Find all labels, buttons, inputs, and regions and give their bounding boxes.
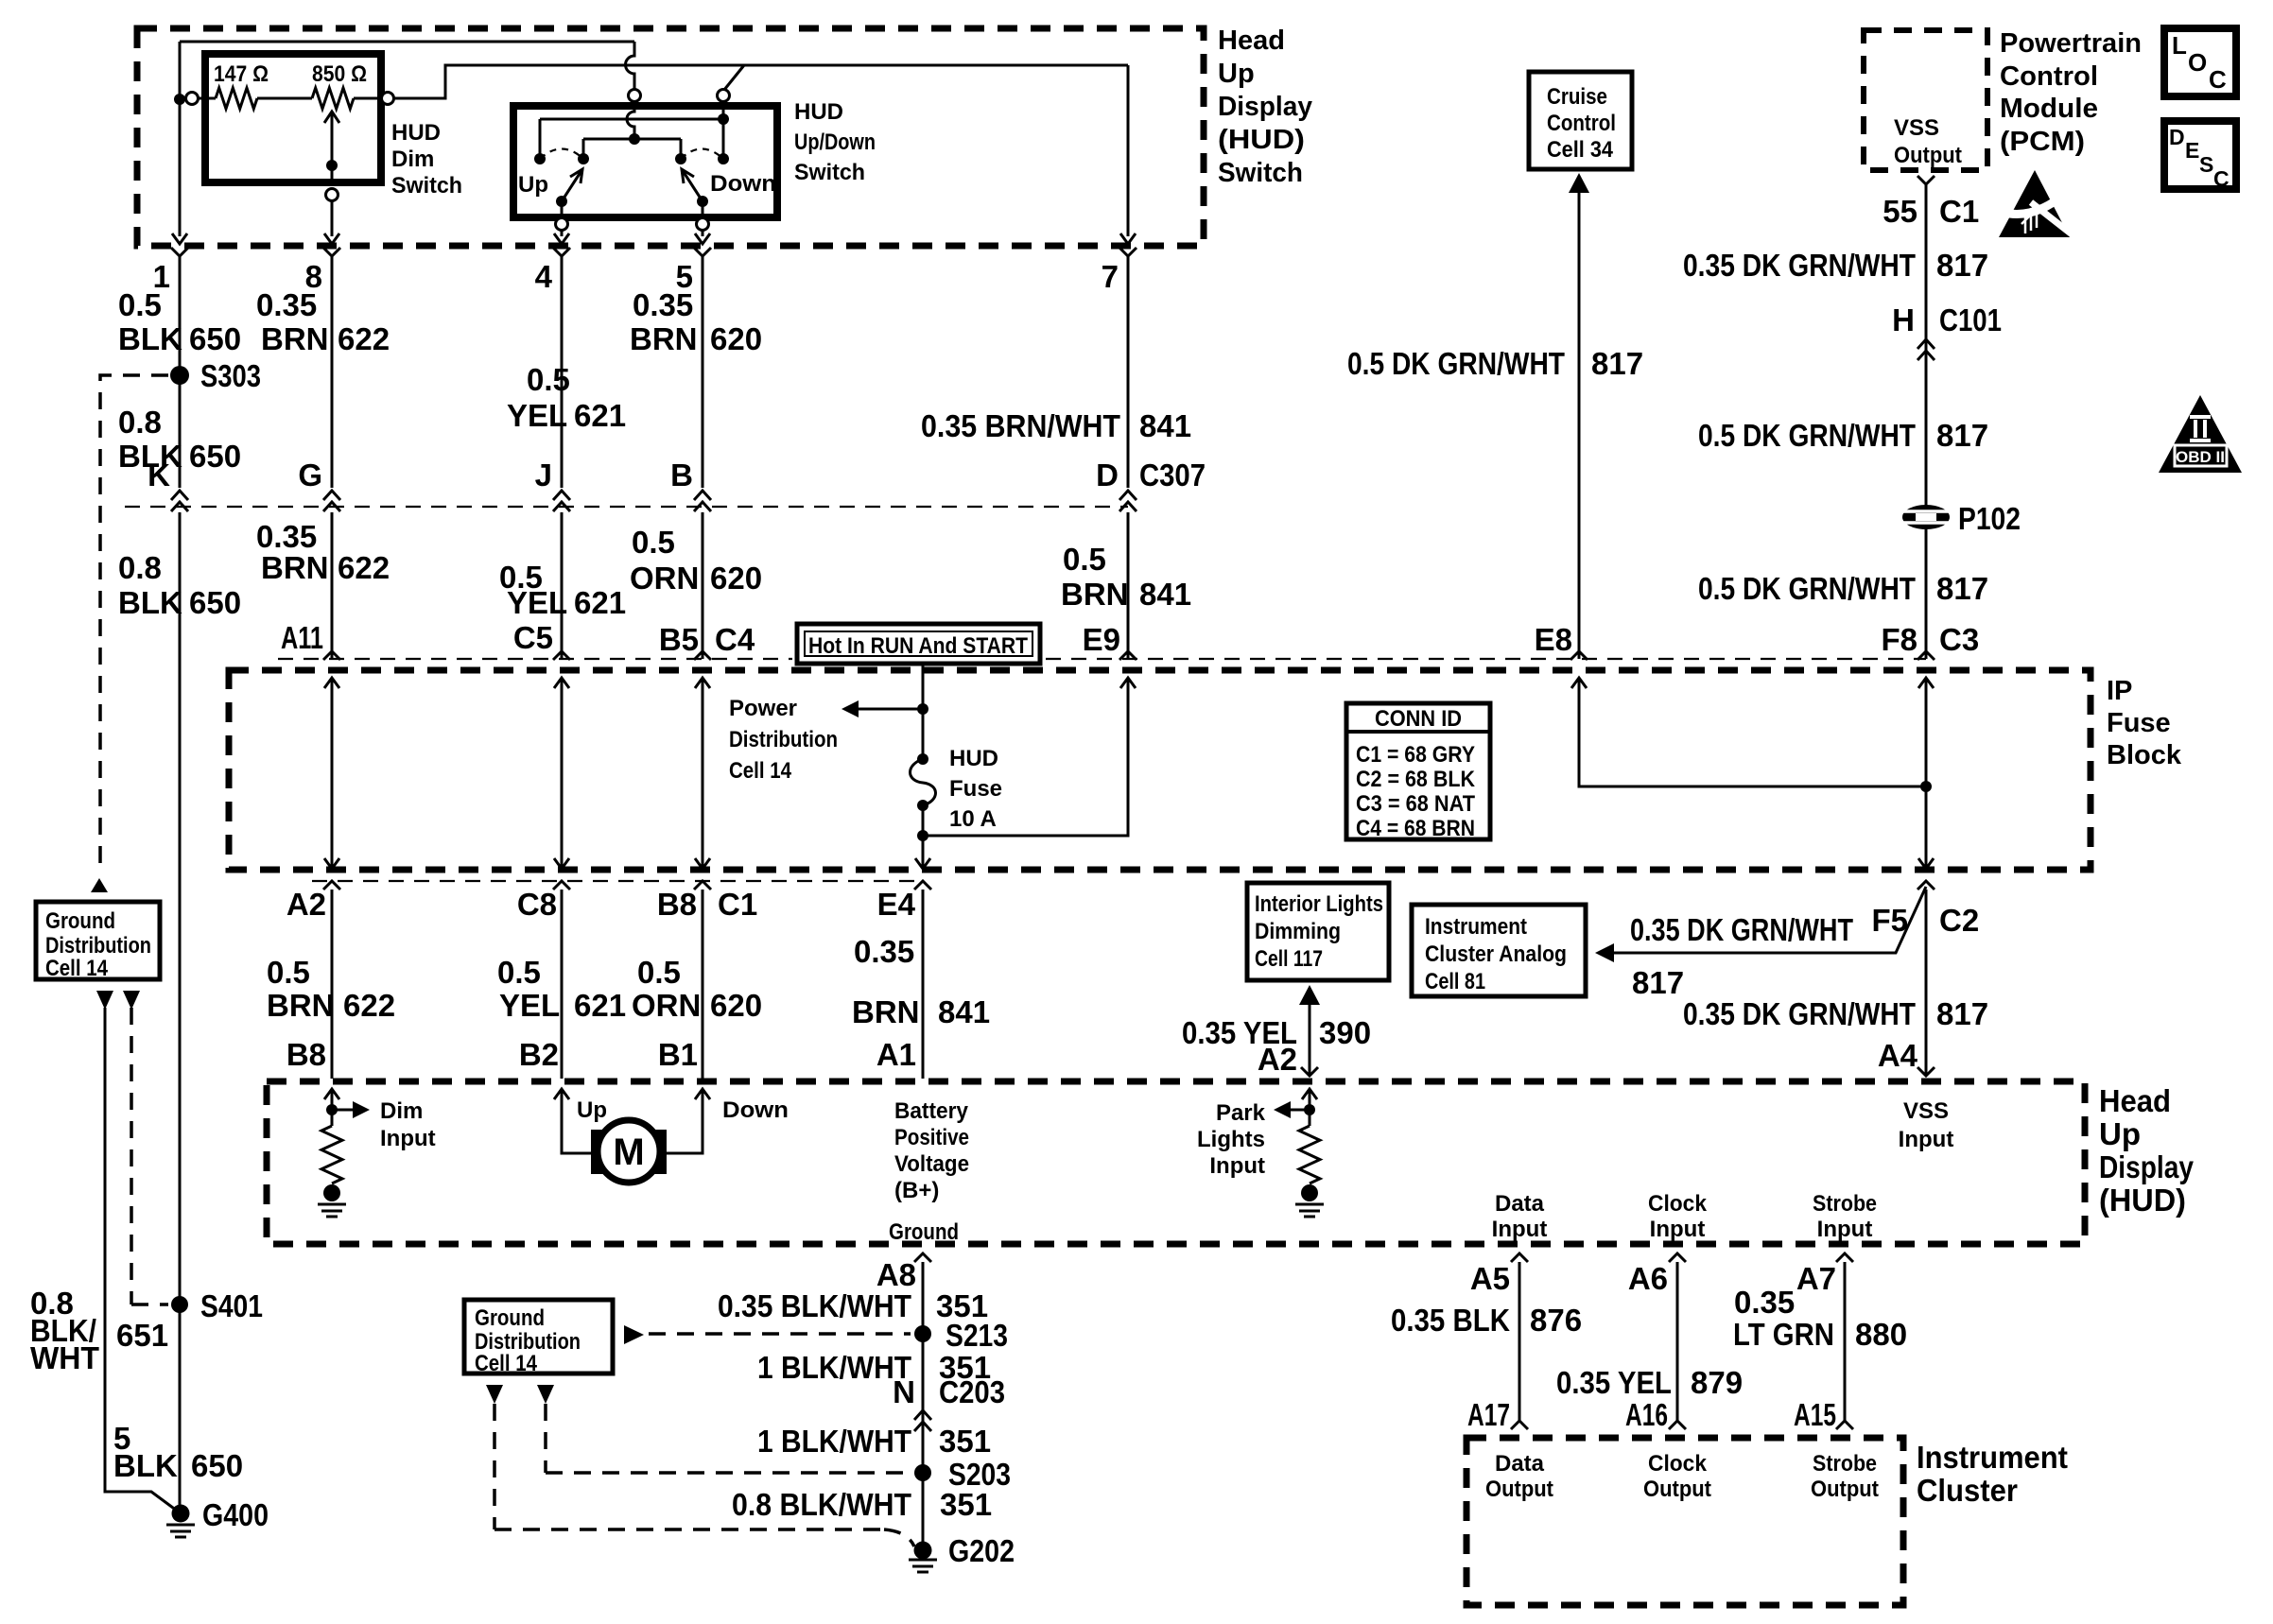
- wire C1 into switch w/ hop: [627, 102, 634, 139]
- svg-text:BRN: BRN: [630, 321, 698, 356]
- svg-text:OBD II: OBD II: [2176, 448, 2225, 466]
- svg-text:Fuse: Fuse: [949, 776, 1002, 802]
- svg-text:Up: Up: [518, 172, 548, 198]
- pin A6 fork: [1669, 1253, 1686, 1262]
- svg-text:Display: Display: [1218, 92, 1312, 122]
- svg-text:C8: C8: [517, 887, 557, 922]
- svg-text:Battery: Battery: [894, 1098, 969, 1124]
- svg-text:A2: A2: [286, 887, 326, 922]
- label 0.5 BRN 622 (3): [267, 955, 395, 1023]
- svg-text:B8: B8: [657, 887, 697, 922]
- svg-text:Positive: Positive: [894, 1125, 969, 1150]
- svg-text:Voltage: Voltage: [894, 1151, 969, 1177]
- svg-text:A11: A11: [281, 620, 323, 655]
- label VSS Output: [1894, 115, 1962, 168]
- svg-text:C2: C2: [1939, 903, 1979, 938]
- svg-text:0.35 BRN/WHT: 0.35 BRN/WHT: [921, 408, 1120, 443]
- svg-text:0.5 DK GRN/WHT: 0.5 DK GRN/WHT: [1698, 571, 1916, 606]
- wire between resistors: [257, 97, 312, 100]
- wire 817 diagonal to cell 81: [1612, 887, 1926, 953]
- wire 620 pin5-C307: [702, 256, 704, 488]
- label Clock Input: [1648, 1191, 1708, 1242]
- svg-text:55: 55: [1883, 194, 1917, 229]
- ground park: [1295, 1204, 1324, 1217]
- svg-text:C4: C4: [715, 622, 755, 657]
- svg-text:620: 620: [710, 561, 762, 596]
- svg-text:0.5 DK GRN/WHT: 0.5 DK GRN/WHT: [1347, 346, 1565, 381]
- wire 650 pin1-C307: [179, 256, 182, 488]
- node rail2 center: [629, 133, 640, 145]
- label 0.35 BRN 622: [256, 287, 390, 356]
- wire 390: [1309, 1003, 1311, 1076]
- wire to right terminal: [354, 97, 381, 100]
- svg-text:0.35 DK GRN/WHT: 0.35 DK GRN/WHT: [1683, 248, 1916, 283]
- node junction dot dim input: [174, 94, 185, 105]
- label 0.35 DK GRN/WHT 817 (A4): [1683, 996, 1988, 1031]
- label Head Up Display (HUD): [2099, 1083, 2195, 1218]
- svg-text:Input: Input: [1817, 1217, 1873, 1242]
- svg-text:0.5: 0.5: [632, 525, 675, 560]
- C307 pin D: [1119, 491, 1136, 500]
- pin E9: [1119, 651, 1136, 660]
- dashed ref to G202: [495, 1404, 884, 1529]
- svg-text:O: O: [2188, 48, 2207, 77]
- pin C5: [553, 651, 570, 660]
- connector pin 7 fork: [1119, 248, 1136, 256]
- hud pin arrow up: [554, 1089, 569, 1099]
- svg-text:N: N: [893, 1374, 915, 1409]
- svg-text:Cell 117: Cell 117: [1255, 946, 1323, 972]
- pin E4: [914, 881, 931, 890]
- wire 817 VSS output: [1925, 184, 1928, 659]
- wire 650 K down left margin: [179, 512, 182, 1513]
- svg-text:F5: F5: [1871, 903, 1908, 938]
- svg-text:Cell 14: Cell 14: [475, 1351, 538, 1376]
- svg-text:1 BLK/WHT: 1 BLK/WHT: [757, 1424, 911, 1459]
- svg-text:C2 = 68 BLK: C2 = 68 BLK: [1356, 767, 1476, 792]
- svg-text:VSS: VSS: [1903, 1098, 1949, 1124]
- label Park Lights Input: [1197, 1100, 1266, 1179]
- ESD sensitivity symbol: [1999, 170, 2079, 240]
- svg-text:Input: Input: [380, 1126, 436, 1151]
- svg-text:Cell 34: Cell 34: [1547, 137, 1614, 163]
- svg-text:BRN: BRN: [261, 550, 329, 585]
- dashed ground ref S303 to margin: [100, 375, 168, 873]
- wire 620 through block: [702, 678, 704, 869]
- svg-text:HUD: HUD: [794, 99, 843, 125]
- label 0.35 BRN 622 (2): [256, 519, 390, 585]
- label 0.8 BLK/WHT 651: [30, 1286, 168, 1375]
- ground G400: [172, 1505, 190, 1523]
- splice S213: [914, 1325, 931, 1342]
- svg-text:Clock: Clock: [1648, 1191, 1708, 1217]
- wire 622 pin8-C307: [331, 256, 334, 488]
- label HUD Fuse 10 A: [949, 746, 1002, 832]
- label Data Output: [1485, 1451, 1553, 1502]
- svg-text:YEL: YEL: [507, 585, 567, 620]
- svg-text:Cell 14: Cell 14: [45, 956, 109, 981]
- svg-text:P102: P102: [1958, 501, 2021, 536]
- label Power Distribution Cell 14: [729, 696, 838, 784]
- svg-text:622: 622: [338, 550, 390, 585]
- terminal circle dim right: [382, 93, 394, 105]
- LOC legend box: [2164, 28, 2236, 96]
- wire pin7 down: [1127, 65, 1130, 236]
- svg-text:A7: A7: [1796, 1261, 1836, 1296]
- svg-text:817: 817: [1936, 248, 1988, 283]
- svg-text:G202: G202: [948, 1533, 1015, 1568]
- pin A7 fork: [1836, 1253, 1853, 1262]
- svg-text:390: 390: [1319, 1015, 1371, 1050]
- CONN ID table box: [1346, 703, 1490, 839]
- label Ground Distribution Cell 14 upper: [45, 908, 151, 981]
- connector pin 4 fork: [553, 248, 570, 256]
- arrow to power distribution: [857, 708, 923, 711]
- svg-text:C101: C101: [1939, 302, 2002, 337]
- connector pin 5 fork: [694, 248, 711, 256]
- label Instrument Cluster: [1917, 1440, 2068, 1508]
- svg-text:Instrument: Instrument: [1425, 914, 1527, 940]
- resistor dim input: [321, 1126, 342, 1183]
- svg-text:M: M: [613, 1132, 644, 1173]
- wire 621 pin4-C307: [561, 256, 564, 488]
- svg-text:BRN: BRN: [1061, 577, 1129, 612]
- connector row dashed (fuse block top): [278, 658, 1926, 660]
- svg-text:621: 621: [574, 988, 626, 1023]
- svg-text:Fuse: Fuse: [2107, 708, 2171, 738]
- svg-text:Output: Output: [1894, 143, 1962, 168]
- diag branch to common C2: [724, 65, 744, 90]
- svg-text:D: D: [2169, 125, 2185, 149]
- wire E8 cruise feed in block: [1579, 678, 1926, 786]
- svg-text:Dim: Dim: [391, 147, 434, 172]
- svg-text:351: 351: [940, 1487, 992, 1522]
- label 0.35 BLK 876: [1391, 1303, 1582, 1338]
- svg-text:Up: Up: [2099, 1116, 2141, 1151]
- node fuse output junction: [917, 830, 928, 841]
- label Interior Lights Dimming Cell 117: [1255, 891, 1383, 972]
- svg-text:Powertrain: Powertrain: [2000, 28, 2142, 59]
- svg-text:LT GRN: LT GRN: [1733, 1317, 1834, 1352]
- svg-text:C307: C307: [1139, 458, 1206, 492]
- pin fork into cluster: [1836, 1421, 1853, 1429]
- svg-text:4: 4: [535, 259, 553, 294]
- svg-text:BLK: BLK: [118, 585, 182, 620]
- svg-text:10 A: 10 A: [949, 806, 997, 832]
- wire wiper to pin8: [331, 165, 334, 183]
- label 0.8 BLK/WHT 351: [732, 1487, 992, 1522]
- svg-text:0.35: 0.35: [256, 287, 317, 322]
- svg-text:0.5: 0.5: [637, 955, 681, 990]
- svg-text:C: C: [2213, 166, 2230, 191]
- svg-text:Cluster Analog: Cluster Analog: [1425, 942, 1567, 967]
- wire 351 A8-G202: [922, 1262, 925, 1550]
- wire 622 A2-B8: [331, 890, 334, 1079]
- svg-text:Up/Down: Up/Down: [794, 130, 876, 155]
- Interior Lights Dimming Cell 117 box: [1247, 883, 1389, 980]
- wire 817 F5-A4: [1925, 890, 1928, 1076]
- label Ground Distribution Cell 14 lower: [475, 1305, 581, 1376]
- svg-text:Power: Power: [729, 696, 797, 721]
- svg-text:Output: Output: [1643, 1477, 1711, 1502]
- label Dim Input: [380, 1098, 436, 1151]
- label Powertrain Control Module (PCM): [2000, 28, 2142, 157]
- arrow into instrument cluster analog: [1595, 943, 1614, 962]
- motor M: [591, 1120, 667, 1183]
- label HUD Up/Down Switch: [794, 99, 876, 185]
- label 0.35 YEL 390: [1182, 1015, 1371, 1050]
- svg-text:C1 = 68 GRY: C1 = 68 GRY: [1356, 742, 1475, 768]
- node wiper junction: [326, 160, 338, 171]
- wire 650 to G400: [105, 1008, 181, 1513]
- wire 841 D-E9: [1127, 512, 1130, 659]
- resistor park lights: [1299, 1126, 1320, 1183]
- C307 pin K: [171, 491, 188, 500]
- label 5 BLK 650: [113, 1421, 243, 1483]
- label 0.35 DK GRN/WHT 817 (top): [1683, 248, 1988, 283]
- svg-text:0.5: 0.5: [527, 362, 570, 397]
- Instrument Cluster Analog Cell 81 box: [1412, 905, 1586, 996]
- wire up-wiper to pin4: [561, 201, 564, 217]
- label Cruise Control Cell 34: [1547, 84, 1616, 163]
- wire fuse output to E9: [923, 678, 1128, 836]
- svg-text:B8: B8: [286, 1037, 326, 1072]
- svg-text:C1: C1: [718, 887, 757, 922]
- svg-text:C4 = 68 BRN: C4 = 68 BRN: [1356, 816, 1475, 841]
- svg-text:S303: S303: [200, 358, 261, 393]
- Hot In RUN And START box: [797, 624, 1040, 664]
- arrow into interior lights dimming: [1299, 985, 1320, 1005]
- svg-text:Module: Module: [2000, 94, 2098, 124]
- svg-text:IP: IP: [2107, 676, 2132, 706]
- Ground Distribution Cell 14 box lower: [464, 1300, 613, 1373]
- wire 621 through block: [561, 678, 564, 869]
- label 0.35 BRN/WHT 841: [921, 408, 1191, 443]
- hud pin arrow park: [1302, 1089, 1317, 1099]
- svg-text:E4: E4: [877, 887, 916, 922]
- arrow park lights: [1291, 1109, 1310, 1112]
- svg-text:B: B: [670, 458, 693, 492]
- svg-text:G400: G400: [202, 1497, 269, 1532]
- label HUD Dim Switch: [391, 120, 462, 199]
- svg-text:YEL: YEL: [507, 398, 567, 433]
- label 0.35 BRN 620: [630, 287, 762, 356]
- svg-text:C203: C203: [939, 1374, 1005, 1409]
- C307 pin G: [323, 491, 340, 500]
- wire A7 down: [1844, 1262, 1847, 1421]
- svg-text:Block: Block: [2107, 740, 2182, 770]
- splice S203: [914, 1464, 931, 1481]
- svg-text:841: 841: [1139, 577, 1191, 612]
- svg-text:Input: Input: [1492, 1217, 1548, 1242]
- splice S401: [171, 1296, 188, 1313]
- label Head Up Display (HUD) Switch: [1218, 26, 1312, 188]
- arrow into cruise control: [1569, 173, 1589, 193]
- svg-text:0.35 BLK/WHT: 0.35 BLK/WHT: [718, 1288, 911, 1323]
- svg-text:Lights: Lights: [1197, 1127, 1265, 1152]
- svg-text:Output: Output: [1485, 1477, 1553, 1502]
- svg-text:Interior Lights: Interior Lights: [1255, 891, 1383, 917]
- node park junction: [1304, 1104, 1315, 1115]
- svg-text:K: K: [147, 458, 170, 492]
- svg-text:351: 351: [939, 1424, 991, 1459]
- svg-text:E8: E8: [1535, 622, 1572, 657]
- svg-text:Ground: Ground: [475, 1305, 545, 1331]
- svg-text:0.35: 0.35: [1734, 1285, 1795, 1320]
- pin B5 C4: [694, 651, 711, 660]
- svg-text:Switch: Switch: [1218, 158, 1303, 188]
- Cruise Control Cell 34 box: [1529, 72, 1632, 169]
- svg-text:E: E: [2185, 138, 2199, 163]
- svg-text:817: 817: [1591, 346, 1643, 381]
- wire fuse output down: [922, 805, 925, 869]
- svg-text:Control: Control: [2000, 61, 2098, 92]
- svg-text:Cluster: Cluster: [1917, 1473, 2018, 1508]
- svg-text:A15: A15: [1794, 1397, 1836, 1432]
- svg-text:Distribution: Distribution: [729, 727, 838, 752]
- svg-text:(PCM): (PCM): [2000, 127, 2085, 157]
- label 0.5 DK GRN/WHT 817 (cruise): [1347, 346, 1643, 381]
- thin dashed row below fuse block: [312, 880, 923, 882]
- svg-text:Strobe: Strobe: [1813, 1191, 1877, 1217]
- svg-text:Input: Input: [1899, 1127, 1954, 1152]
- svg-text:Head: Head: [2099, 1083, 2171, 1118]
- svg-text:622: 622: [338, 321, 390, 356]
- label Data Input: [1492, 1191, 1548, 1242]
- svg-text:ORN: ORN: [630, 561, 699, 596]
- svg-text:Switch: Switch: [391, 173, 462, 199]
- node 817 junction: [1920, 781, 1932, 792]
- wire pin1 down: [179, 99, 182, 236]
- svg-text:A16: A16: [1625, 1397, 1668, 1432]
- svg-text:(HUD): (HUD): [2099, 1183, 2186, 1218]
- svg-text:B2: B2: [519, 1037, 559, 1072]
- svg-text:0.8: 0.8: [118, 405, 162, 440]
- svg-text:0.8: 0.8: [118, 550, 162, 585]
- Powertrain Control Module dashed box: [1864, 30, 1987, 170]
- svg-text:0.35 DK GRN/WHT: 0.35 DK GRN/WHT: [1683, 996, 1916, 1031]
- pin F5 C2 fork: [1917, 881, 1935, 890]
- pin B8 C1: [694, 881, 711, 890]
- svg-text:0.8 BLK/WHT: 0.8 BLK/WHT: [732, 1487, 911, 1522]
- svg-text:Up: Up: [1218, 59, 1255, 89]
- label 0.8 BLK 650 (above K): [118, 405, 241, 474]
- label 0.5 BLK 650: [118, 287, 241, 356]
- svg-text:650: 650: [189, 439, 241, 474]
- node park ground dot: [1301, 1184, 1318, 1201]
- label 1 BLK/WHT 351 b: [757, 1424, 991, 1459]
- label 0.5 ORN 620: [630, 525, 762, 596]
- svg-text:650: 650: [189, 321, 241, 356]
- svg-text:C5: C5: [513, 620, 553, 655]
- svg-text:817: 817: [1936, 571, 1988, 606]
- svg-text:Data: Data: [1495, 1191, 1545, 1217]
- svg-text:C3: C3: [1939, 622, 1979, 657]
- svg-text:Head: Head: [1218, 26, 1285, 56]
- svg-text:Instrument: Instrument: [1917, 1440, 2068, 1475]
- svg-text:A8: A8: [876, 1257, 916, 1292]
- svg-text:0.5: 0.5: [267, 955, 310, 990]
- svg-text:620: 620: [710, 321, 762, 356]
- svg-text:(B+): (B+): [894, 1178, 939, 1203]
- svg-text:HUD: HUD: [391, 120, 441, 146]
- label VSS Input: [1899, 1098, 1954, 1152]
- svg-text:0.35 DK GRN/WHT: 0.35 DK GRN/WHT: [1630, 912, 1853, 947]
- svg-text:HUD: HUD: [949, 746, 998, 771]
- up wiper: [562, 169, 582, 201]
- wire hot feed to fuse: [922, 664, 925, 759]
- down wiper: [682, 169, 703, 201]
- arrow down right below box2: [537, 1385, 554, 1404]
- svg-text:850 Ω: 850 Ω: [312, 61, 367, 87]
- wire 817 to cruise: [1578, 191, 1581, 659]
- svg-text:A1: A1: [876, 1037, 916, 1072]
- pin A5 fork: [1511, 1253, 1528, 1262]
- svg-text:Input: Input: [1650, 1217, 1706, 1242]
- svg-text:Ground: Ground: [889, 1219, 959, 1245]
- svg-text:Dim: Dim: [380, 1098, 423, 1124]
- svg-text:817: 817: [1936, 418, 1988, 453]
- resistor 147 ohm: [216, 88, 257, 109]
- pin F8 C3: [1917, 651, 1935, 660]
- svg-text:0.5: 0.5: [1063, 542, 1106, 577]
- svg-text:Control: Control: [1547, 111, 1616, 136]
- label Instrument Cluster Analog Cell 81: [1425, 914, 1567, 994]
- svg-text:Up: Up: [577, 1097, 607, 1123]
- svg-text:S213: S213: [946, 1318, 1008, 1353]
- svg-text:A2: A2: [1258, 1042, 1297, 1077]
- svg-text:A6: A6: [1628, 1261, 1668, 1296]
- svg-text:E9: E9: [1083, 622, 1120, 657]
- svg-text:1 BLK/WHT: 1 BLK/WHT: [757, 1350, 911, 1385]
- svg-text:Display: Display: [2099, 1149, 2195, 1184]
- svg-text:Switch: Switch: [794, 160, 865, 185]
- conn id entries: [1356, 742, 1476, 841]
- label 1 BLK/WHT 351 a: [757, 1350, 991, 1385]
- wire 622 through block: [331, 678, 334, 869]
- OBD II symbol: [2159, 395, 2242, 473]
- HUD Up/Down Switch box: [513, 106, 777, 217]
- wiper arrow of dim pot: [331, 112, 334, 165]
- svg-text:817: 817: [1936, 996, 1988, 1031]
- svg-text:Ground: Ground: [45, 908, 115, 934]
- svg-text:S401: S401: [200, 1288, 263, 1323]
- svg-text:650: 650: [189, 585, 241, 620]
- connector C307 dashed line: [125, 506, 1128, 508]
- svg-text:L: L: [2172, 31, 2187, 60]
- terminal circle common C1: [629, 90, 641, 102]
- contact dots: [534, 153, 546, 164]
- label 0.5 ORN 620 (2): [632, 955, 762, 1023]
- wire to resistor: [199, 97, 216, 100]
- label 0.5 YEL 621: [507, 362, 626, 433]
- svg-text:ORN: ORN: [632, 988, 701, 1023]
- svg-text:Strobe: Strobe: [1813, 1451, 1877, 1477]
- svg-text:(HUD): (HUD): [1218, 125, 1305, 155]
- wire 621 C8-B2: [561, 890, 564, 1079]
- wire dim output to pin7 line: [394, 65, 1128, 98]
- ground dim: [318, 1204, 346, 1217]
- arrow into ground distribution upper: [91, 878, 108, 892]
- DESC legend box: [2164, 121, 2236, 191]
- svg-text:A17: A17: [1467, 1397, 1510, 1432]
- terminal circle pin8: [326, 189, 338, 201]
- internal rail 2: [583, 139, 681, 159]
- wire down to common C1 with hop: [626, 42, 635, 89]
- svg-text:Cruise: Cruise: [1547, 84, 1607, 110]
- wire A6 down: [1676, 1262, 1679, 1421]
- svg-text:Down: Down: [722, 1097, 789, 1123]
